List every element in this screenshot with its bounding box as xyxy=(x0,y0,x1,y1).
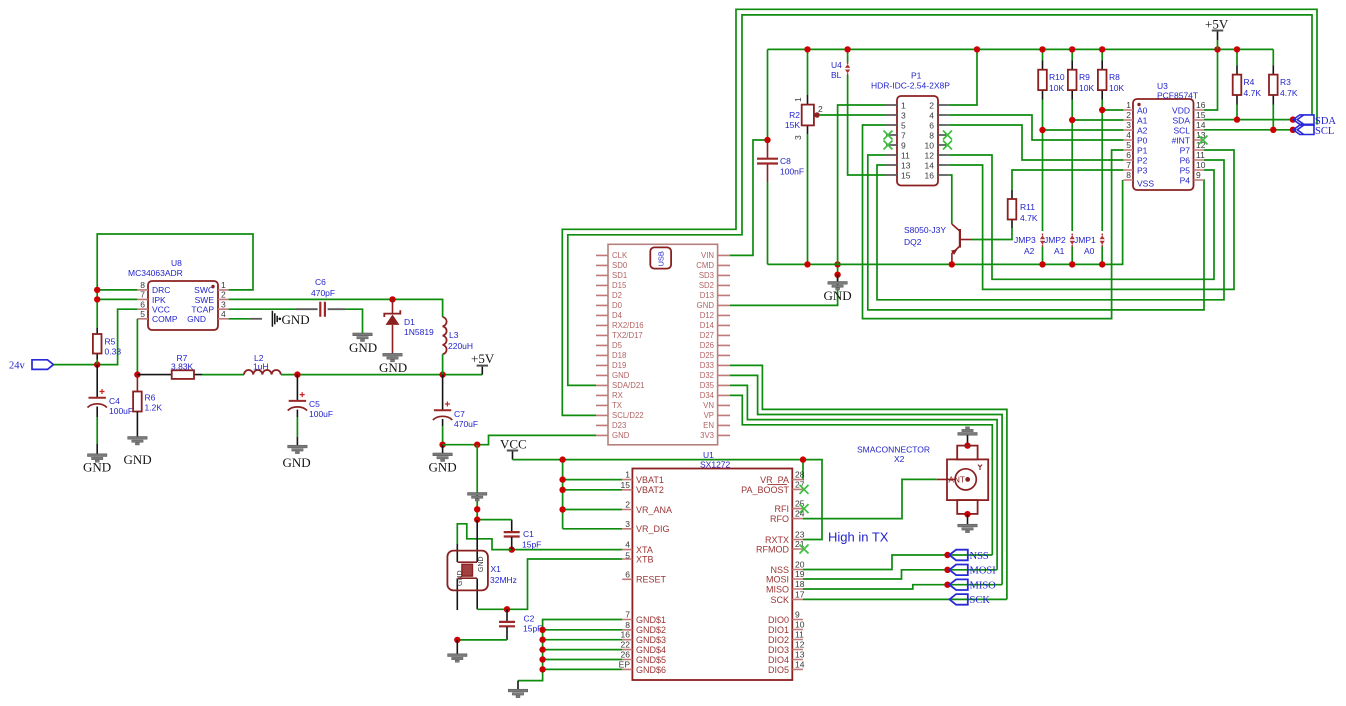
port SDA xyxy=(1293,115,1336,127)
svg-text:1.2K: 1.2K xyxy=(145,403,163,413)
svg-text:2: 2 xyxy=(1126,110,1131,120)
svg-text:NSS: NSS xyxy=(770,565,789,575)
svg-text:VCC: VCC xyxy=(500,437,527,452)
svg-text:11: 11 xyxy=(795,630,804,640)
svg-text:5: 5 xyxy=(625,551,630,561)
node junction gnd branch upper xyxy=(834,261,840,267)
svg-text:D33: D33 xyxy=(700,361,714,370)
svg-text:RX2/D16: RX2/D16 xyxy=(612,321,644,330)
svg-text:CMD: CMD xyxy=(696,261,714,270)
svg-text:D25: D25 xyxy=(700,351,715,360)
svg-text:8: 8 xyxy=(929,131,934,141)
resistor R5 0.38 xyxy=(93,328,121,360)
svg-text:4.7K: 4.7K xyxy=(1280,88,1298,98)
wire P1 pin5 to U3 P1 xyxy=(863,125,1124,319)
svg-text:5: 5 xyxy=(1126,140,1131,150)
wire MCU GND right to ground rail branch xyxy=(730,264,838,305)
fuse U4 BL xyxy=(831,49,886,175)
node junction VR_ANA xyxy=(559,506,565,512)
svg-text:14: 14 xyxy=(1196,120,1206,130)
svg-text:P6: P6 xyxy=(1180,156,1191,166)
svg-text:EN: EN xyxy=(703,421,714,430)
wire P1 pin16 to transistor collector xyxy=(949,175,952,224)
wire U3 SDA to port xyxy=(1204,119,1293,121)
wire D33 to SCK net xyxy=(730,365,1007,599)
svg-text:11: 11 xyxy=(901,151,910,161)
node 24v input port xyxy=(9,360,54,372)
svg-text:D1: D1 xyxy=(404,317,415,327)
svg-text:GND$3: GND$3 xyxy=(636,635,666,645)
wire U1 ground bus xyxy=(518,620,622,681)
svg-text:VIN: VIN xyxy=(701,251,714,260)
svg-text:GND: GND xyxy=(124,452,152,467)
svg-text:C4: C4 xyxy=(109,396,120,406)
svg-text:SCL: SCL xyxy=(1315,126,1334,137)
wire ground net C7 to MCU GND pin xyxy=(443,435,596,444)
svg-text:470pF: 470pF xyxy=(311,288,335,298)
wire R2 wiper to P1 pin3 xyxy=(819,114,886,116)
svg-text:3: 3 xyxy=(901,111,906,121)
svg-text:D5: D5 xyxy=(612,341,623,350)
svg-text:C2: C2 xyxy=(524,614,535,624)
svg-text:PCF8574T: PCF8574T xyxy=(1157,91,1198,101)
node junction U4 top xyxy=(844,46,850,52)
svg-text:15pF: 15pF xyxy=(522,540,541,550)
svg-text:D14: D14 xyxy=(700,321,715,330)
svg-text:D27: D27 xyxy=(700,331,714,340)
port MOSI xyxy=(949,565,996,577)
ground below crystal xyxy=(448,640,467,662)
node junction VBAT col top xyxy=(559,456,565,462)
node junction R8/A0 xyxy=(1099,107,1105,113)
svg-text:100uF: 100uF xyxy=(109,406,133,416)
svg-text:R6: R6 xyxy=(145,393,156,403)
wire U3 A2 row xyxy=(1043,129,1124,131)
ground below R6 xyxy=(124,437,152,468)
svg-text:DRC: DRC xyxy=(152,285,170,295)
svg-text:DIO5: DIO5 xyxy=(768,665,789,675)
wire COMP to feedback node xyxy=(136,319,138,375)
svg-text:R8: R8 xyxy=(1109,72,1120,82)
port SCK xyxy=(949,594,990,606)
svg-text:D18: D18 xyxy=(612,351,626,360)
svg-text:1: 1 xyxy=(901,101,906,111)
svg-text:MOSI: MOSI xyxy=(970,566,997,577)
wire P1 pin4 to U3 P0 xyxy=(949,115,1124,140)
svg-text:MISO: MISO xyxy=(766,584,789,594)
svg-text:12: 12 xyxy=(795,640,805,650)
svg-text:RFO: RFO xyxy=(770,514,789,524)
node junction C5 xyxy=(294,371,300,377)
svg-text:VR_DIG: VR_DIG xyxy=(636,524,670,534)
svg-text:23: 23 xyxy=(795,530,805,540)
svg-text:15K: 15K xyxy=(785,120,800,130)
svg-text:28: 28 xyxy=(795,470,805,480)
svg-text:3: 3 xyxy=(625,519,630,529)
wire RFO to antenna xyxy=(803,479,937,518)
node junction IPK row xyxy=(94,296,100,302)
resistor R9 10K xyxy=(1068,49,1095,231)
wire XTB to crystal out xyxy=(477,559,622,609)
svg-text:16: 16 xyxy=(925,171,935,181)
svg-text:D32: D32 xyxy=(700,371,714,380)
node junction R4/SDA xyxy=(1234,116,1240,122)
svg-text:P1: P1 xyxy=(911,71,922,81)
node junction C7/ground net xyxy=(439,442,445,448)
op-amp U8 MC34063ADR body xyxy=(128,258,229,330)
svg-text:10K: 10K xyxy=(1079,83,1094,93)
capacitor C7 470uF xyxy=(433,375,478,445)
node junctions R10/R9/R8 top rail xyxy=(1039,46,1045,52)
svg-text:GND: GND xyxy=(478,556,485,572)
wire 24v to R5/C4 node xyxy=(54,309,137,364)
node junctions ground bus xyxy=(539,627,545,633)
svg-text:SCL/D22: SCL/D22 xyxy=(612,411,644,420)
svg-text:SD2: SD2 xyxy=(699,281,714,290)
node junction NSS tip xyxy=(944,552,950,558)
svg-text:GND$2: GND$2 xyxy=(636,625,666,635)
transistor Q DQ2 S8050-J3Y xyxy=(904,224,972,264)
svg-text:VN: VN xyxy=(703,401,714,410)
node junction R2 top xyxy=(804,46,810,52)
svg-text:VCC: VCC xyxy=(152,305,170,315)
svg-text:TX2/D17: TX2/D17 xyxy=(612,331,643,340)
wire D32 to MISO net xyxy=(730,375,1002,584)
capacitor C4 100uF xyxy=(88,365,134,445)
svg-text:14: 14 xyxy=(925,161,935,171)
svg-text:BL: BL xyxy=(831,70,842,80)
svg-text:7: 7 xyxy=(901,131,906,141)
node junction SCL port tip xyxy=(1290,127,1296,133)
svg-text:GND$5: GND$5 xyxy=(636,655,666,665)
svg-text:D23: D23 xyxy=(612,421,626,430)
resistor R11 4.7K xyxy=(1008,190,1038,228)
svg-text:DIO2: DIO2 xyxy=(768,635,789,645)
svg-text:7: 7 xyxy=(140,290,145,300)
svg-text:S8050-J3Y: S8050-J3Y xyxy=(904,225,946,235)
net +5V flag top right xyxy=(1205,17,1229,50)
svg-text:17: 17 xyxy=(795,589,805,599)
svg-text:3.83K: 3.83K xyxy=(171,361,194,371)
svg-text:18: 18 xyxy=(795,579,805,589)
svg-text:A1: A1 xyxy=(1137,116,1148,126)
svg-text:7: 7 xyxy=(625,610,630,620)
node junction C1/XTA xyxy=(509,546,515,552)
svg-text:2: 2 xyxy=(221,290,226,300)
node junction R2 bottom xyxy=(804,261,810,267)
wire VBAT supply column xyxy=(563,460,623,529)
node junction 24v/R5/C4 xyxy=(94,361,100,367)
svg-text:D34: D34 xyxy=(700,391,715,400)
ground symbol top circuit xyxy=(824,275,852,303)
node junction COMP/R6/R7 xyxy=(134,371,140,377)
svg-text:JMP2: JMP2 xyxy=(1044,235,1066,245)
wire XTA row xyxy=(512,549,623,551)
wire U3 A0 row xyxy=(1102,109,1123,111)
svg-text:D19: D19 xyxy=(612,361,626,370)
svg-text:3: 3 xyxy=(221,299,226,309)
svg-text:13: 13 xyxy=(795,650,805,660)
svg-text:X1: X1 xyxy=(491,564,502,574)
node junction MISO tip xyxy=(944,582,950,588)
svg-text:RESET: RESET xyxy=(636,575,667,585)
wire P1 pin11 to U3 P4 xyxy=(868,155,1204,310)
svg-text:220uH: 220uH xyxy=(448,341,473,351)
node junction C8/VIN xyxy=(764,137,770,143)
jumper JMP2 A1 xyxy=(1044,234,1075,265)
wire transistor base to R11 xyxy=(972,228,1013,240)
svg-text:VBAT1: VBAT1 xyxy=(636,475,664,485)
svg-text:1: 1 xyxy=(221,280,226,290)
svg-text:SD1: SD1 xyxy=(612,271,627,280)
resistor R6 1.2K xyxy=(133,375,162,437)
wire U3 A1 row xyxy=(1072,119,1123,121)
svg-text:GND: GND xyxy=(429,460,457,475)
svg-text:3V3: 3V3 xyxy=(700,431,714,440)
wire D35 to MOSI net xyxy=(730,385,997,569)
svg-text:R5: R5 xyxy=(105,337,116,347)
svg-text:4.7K: 4.7K xyxy=(1244,88,1262,98)
wire P1 pin6 to U3 P2 xyxy=(949,125,1124,160)
wire MISO row xyxy=(803,585,1002,589)
svg-text:4: 4 xyxy=(625,540,630,550)
resistor R10 10K xyxy=(1038,49,1065,231)
svg-text:11: 11 xyxy=(1196,150,1205,160)
svg-text:C1: C1 xyxy=(523,529,534,539)
svg-text:HDR-IDC-2.54-2X8P: HDR-IDC-2.54-2X8P xyxy=(871,81,950,91)
wire R5 column and DRC/IPK feed xyxy=(97,290,137,365)
svg-text:A1: A1 xyxy=(1054,246,1065,256)
node junctions jumpers on ground rail xyxy=(1039,261,1045,267)
svg-text:A0: A0 xyxy=(1084,246,1095,256)
resistor R3 4.7K xyxy=(1269,49,1298,129)
net VCC flag xyxy=(500,437,527,460)
svg-text:10: 10 xyxy=(795,620,805,630)
wire R7 to L2 xyxy=(202,374,244,376)
svg-text:9: 9 xyxy=(901,141,906,151)
ground below U1 bus xyxy=(508,681,527,698)
svg-text:SDA: SDA xyxy=(1173,116,1191,126)
svg-text:4: 4 xyxy=(221,309,226,319)
svg-text:0.33: 0.33 xyxy=(105,347,122,357)
svg-text:1uH: 1uH xyxy=(253,361,269,371)
wire U3 VDD to +5V rail xyxy=(1204,49,1218,110)
port MISO xyxy=(949,579,996,591)
svg-text:4: 4 xyxy=(1126,130,1131,140)
svg-text:GND: GND xyxy=(187,314,206,324)
svg-text:GND: GND xyxy=(282,312,310,327)
svg-text:19: 19 xyxy=(795,569,805,579)
svg-text:6: 6 xyxy=(625,569,630,579)
svg-text:P7: P7 xyxy=(1180,146,1191,156)
svg-text:P1: P1 xyxy=(1137,146,1148,156)
svg-text:U8: U8 xyxy=(171,258,182,268)
wire XTA staircase to crystal xyxy=(457,524,511,550)
svg-text:P2: P2 xyxy=(1137,156,1148,166)
wire VIN to C8 node xyxy=(730,140,768,255)
svg-text:2: 2 xyxy=(818,104,823,114)
svg-text:7: 7 xyxy=(1126,160,1131,170)
usb connector icon on module xyxy=(650,247,671,268)
svg-text:MOSI: MOSI xyxy=(766,574,789,584)
wire U8 top loop DRC to SWC xyxy=(97,234,253,290)
svg-text:6: 6 xyxy=(140,299,145,309)
svg-text:24v: 24v xyxy=(9,361,26,372)
node junction VDD/+5V xyxy=(1214,46,1220,52)
svg-text:USB: USB xyxy=(657,251,666,266)
svg-text:IPK: IPK xyxy=(152,295,166,305)
mcu module U-ESP32 body xyxy=(596,244,730,444)
svg-text:VR_ANA: VR_ANA xyxy=(636,505,672,515)
ic U3 PCF8574T xyxy=(1123,81,1207,190)
svg-text:MC34063ADR: MC34063ADR xyxy=(128,268,183,278)
wire SWE to switch node xyxy=(229,299,443,317)
svg-text:5: 5 xyxy=(901,121,906,131)
svg-text:1N5819: 1N5819 xyxy=(404,327,434,337)
svg-text:RFI: RFI xyxy=(775,504,790,514)
wire ground rail of top circuit xyxy=(768,180,1123,264)
node junction R4 top rail xyxy=(1234,46,1240,52)
port SCL xyxy=(1293,125,1334,137)
svg-text:RX: RX xyxy=(612,391,624,400)
diode D1 1N5819 xyxy=(384,299,434,353)
inductor L2 1uH xyxy=(244,353,281,375)
wire U3 SCL to port xyxy=(1204,129,1293,131)
resistor R7 3.83K xyxy=(137,353,202,379)
svg-text:D2: D2 xyxy=(612,291,622,300)
svg-text:C6: C6 xyxy=(315,277,326,287)
svg-text:32MHz: 32MHz xyxy=(490,575,517,585)
svg-text:D4: D4 xyxy=(612,311,623,320)
ground below C4 xyxy=(83,445,111,475)
svg-text:SCL: SCL xyxy=(1173,126,1190,136)
node junction C2 top xyxy=(504,606,510,612)
svg-text:SCK: SCK xyxy=(970,595,991,606)
node junction R3/SCL xyxy=(1270,127,1276,133)
node junction crystal gnd xyxy=(454,637,460,643)
svg-text:GND$6: GND$6 xyxy=(636,665,666,675)
svg-text:TX: TX xyxy=(612,401,623,410)
svg-text:RXTX: RXTX xyxy=(765,535,789,545)
svg-text:GND: GND xyxy=(379,360,407,375)
inductor L3 220uH xyxy=(443,317,473,375)
svg-text:+5V: +5V xyxy=(1205,17,1229,32)
wire ground column to crystal area xyxy=(477,445,512,520)
svg-text:DIO3: DIO3 xyxy=(768,645,789,655)
svg-text:R9: R9 xyxy=(1079,72,1090,82)
svg-text:VDD: VDD xyxy=(1172,106,1190,116)
svg-text:SMACONNECTOR: SMACONNECTOR xyxy=(857,445,930,455)
svg-text:C5: C5 xyxy=(309,399,320,409)
svg-text:15: 15 xyxy=(901,171,911,181)
net +5V flag left xyxy=(471,351,495,375)
wire NSS row xyxy=(803,555,992,570)
svg-text:10: 10 xyxy=(1196,160,1206,170)
resistor R4 4.7K xyxy=(1233,49,1262,119)
capacitor C6 470pF xyxy=(229,277,363,333)
svg-text:15pF: 15pF xyxy=(523,624,542,634)
svg-text:10K: 10K xyxy=(1049,83,1064,93)
svg-text:VSS: VSS xyxy=(1137,179,1154,189)
svg-text:P4: P4 xyxy=(1180,176,1191,186)
svg-text:EP: EP xyxy=(619,659,631,669)
svg-text:2: 2 xyxy=(929,101,934,111)
svg-text:3: 3 xyxy=(793,135,803,140)
port NSS xyxy=(949,550,989,562)
svg-text:TCAP: TCAP xyxy=(191,305,214,315)
svg-text:DIO4: DIO4 xyxy=(768,655,789,665)
svg-text:9: 9 xyxy=(1196,170,1201,180)
ic U1 SX1272 xyxy=(619,450,809,680)
capacitor C1 15pF xyxy=(504,520,542,550)
svg-text:VBAT2: VBAT2 xyxy=(636,485,664,495)
node junction emitter/ground rail xyxy=(949,261,955,267)
svg-text:D13: D13 xyxy=(700,291,714,300)
node junction VBAT2 xyxy=(559,487,565,493)
svg-text:GND: GND xyxy=(612,431,630,440)
header P1 HDR-IDC-2.54-2X8P xyxy=(871,71,952,186)
svg-text:8: 8 xyxy=(140,280,145,290)
svg-text:15: 15 xyxy=(1196,110,1206,120)
capacitor C2 15pF xyxy=(457,609,542,640)
svg-text:C8: C8 xyxy=(780,156,791,166)
svg-text:MISO: MISO xyxy=(970,581,997,592)
svg-text:DIO0: DIO0 xyxy=(768,615,789,625)
ground below C6 xyxy=(349,333,377,355)
svg-text:4.7K: 4.7K xyxy=(1020,213,1038,223)
svg-text:4: 4 xyxy=(929,111,934,121)
svg-text:P5: P5 xyxy=(1180,166,1191,176)
wire D34 to NSS net xyxy=(730,395,992,555)
svg-text:GND$4: GND$4 xyxy=(636,645,666,655)
ground symbol above crystal xyxy=(468,493,487,502)
svg-text:2: 2 xyxy=(625,500,630,510)
wire +5V top rail xyxy=(768,48,1274,50)
wire VCC rail to RXTX xyxy=(513,460,823,540)
svg-text:5: 5 xyxy=(140,309,145,319)
svg-text:VP: VP xyxy=(704,411,714,420)
svg-text:CLK: CLK xyxy=(612,251,628,260)
svg-text:R3: R3 xyxy=(1280,77,1291,87)
svg-text:SCK: SCK xyxy=(770,595,789,605)
svg-text:SWC: SWC xyxy=(194,285,214,295)
svg-text:13: 13 xyxy=(901,161,911,171)
svg-text:16: 16 xyxy=(1196,100,1206,110)
svg-text:U3: U3 xyxy=(1157,81,1168,91)
svg-text:6: 6 xyxy=(1126,150,1131,160)
wire P1 pin2 to +5V rail xyxy=(949,49,977,105)
node junction VCC/VR_PA xyxy=(800,456,806,462)
svg-text:GND: GND xyxy=(283,455,311,470)
svg-text:X2: X2 xyxy=(894,454,905,464)
svg-text:VR_PA: VR_PA xyxy=(760,475,789,485)
ground below C7 xyxy=(429,445,457,475)
node junction R10/A2 xyxy=(1039,127,1045,133)
svg-text:SX1272: SX1272 xyxy=(700,460,731,470)
svg-text:1: 1 xyxy=(793,97,803,102)
svg-text:10K: 10K xyxy=(1109,83,1124,93)
svg-text:C7: C7 xyxy=(454,409,465,419)
svg-text:D26: D26 xyxy=(700,341,714,350)
wire VCC branch to VR_PA xyxy=(802,460,804,480)
wire P1 pin12 to U3 P5 xyxy=(949,155,1214,279)
wire SCK row xyxy=(803,598,1007,600)
connector X2 SMACONNECTOR xyxy=(857,427,988,533)
svg-text:GND: GND xyxy=(83,460,111,475)
node junction SDA port tip xyxy=(1290,116,1296,122)
svg-text:SD3: SD3 xyxy=(699,271,714,280)
wire P1 pin13 to U3 P6 xyxy=(877,160,1224,300)
